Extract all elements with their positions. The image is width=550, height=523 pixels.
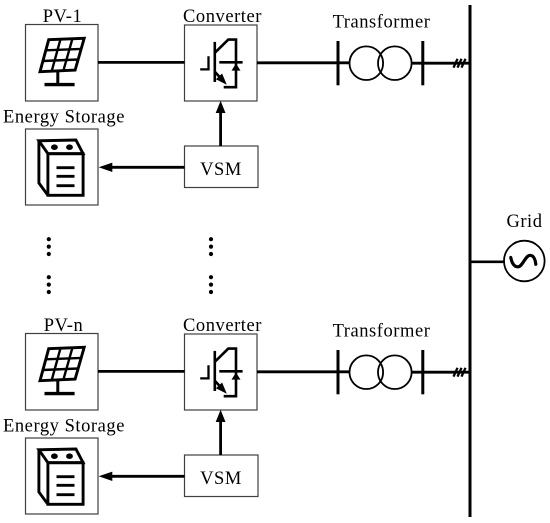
svg-text:PV-n: PV-n: [44, 316, 84, 336]
svg-text:PV-1: PV-1: [43, 7, 83, 27]
svg-text:Grid: Grid: [506, 212, 542, 232]
